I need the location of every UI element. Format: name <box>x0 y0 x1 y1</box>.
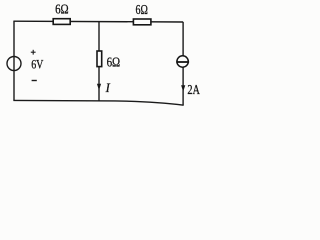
svg-text:2A: 2A <box>187 82 200 97</box>
svg-text:6Ω: 6Ω <box>136 2 148 17</box>
svg-text:6Ω: 6Ω <box>55 1 69 16</box>
svg-text:6Ω: 6Ω <box>107 54 121 69</box>
svg-text:6V: 6V <box>31 56 44 71</box>
svg-text:I: I <box>105 81 111 95</box>
